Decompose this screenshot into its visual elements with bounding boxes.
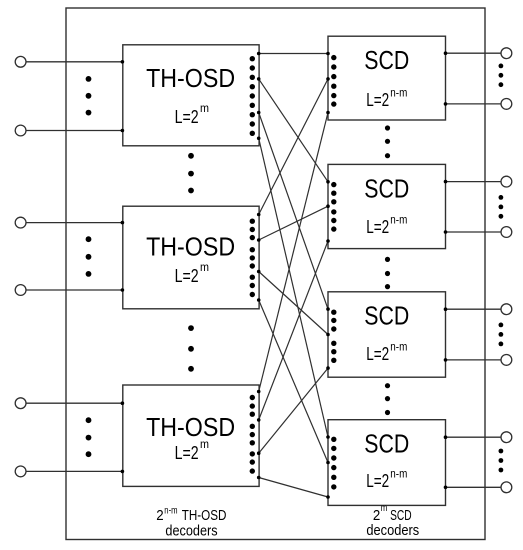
svg-text:SCD: SCD bbox=[364, 429, 409, 459]
svg-text:L=2: L=2 bbox=[175, 266, 199, 286]
svg-text:m: m bbox=[200, 437, 209, 451]
svg-text:n-m: n-m bbox=[390, 213, 407, 227]
svg-text:n-m: n-m bbox=[390, 86, 407, 100]
svg-text:TH-OSD: TH-OSD bbox=[146, 412, 235, 442]
svg-text:SCD: SCD bbox=[364, 173, 409, 203]
svg-text:L=2: L=2 bbox=[175, 443, 199, 463]
svg-text:m: m bbox=[200, 101, 209, 115]
svg-text:n-m: n-m bbox=[390, 339, 407, 353]
svg-text:decoders: decoders bbox=[366, 522, 419, 539]
svg-text:n-m: n-m bbox=[390, 467, 407, 481]
svg-text:SCD: SCD bbox=[364, 45, 409, 75]
svg-text:TH-OSD: TH-OSD bbox=[146, 63, 235, 93]
svg-text:m: m bbox=[381, 503, 388, 514]
svg-text:L=2: L=2 bbox=[366, 471, 389, 491]
svg-text:L=2: L=2 bbox=[175, 107, 199, 127]
svg-text:m: m bbox=[200, 260, 209, 274]
svg-text:L=2: L=2 bbox=[366, 344, 389, 364]
svg-text:L=2: L=2 bbox=[366, 90, 389, 110]
svg-text:TH-OSD: TH-OSD bbox=[146, 232, 235, 262]
svg-text:L=2: L=2 bbox=[366, 217, 389, 237]
svg-text:decoders: decoders bbox=[165, 522, 217, 539]
svg-text:SCD: SCD bbox=[364, 301, 409, 331]
svg-text:n-m: n-m bbox=[164, 505, 177, 516]
svg-text:2: 2 bbox=[156, 507, 163, 524]
